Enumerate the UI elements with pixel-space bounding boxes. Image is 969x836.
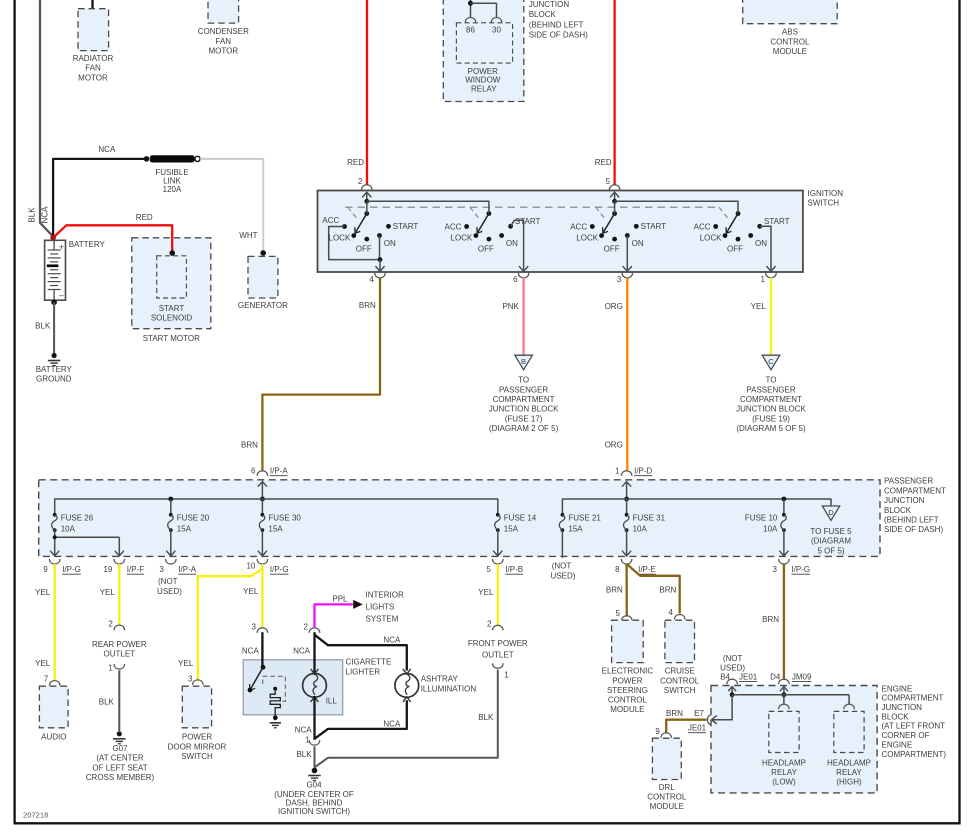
svg-text:NCA: NCA	[383, 720, 401, 729]
svg-text:MODULE: MODULE	[650, 802, 684, 811]
svg-text:NCA: NCA	[295, 726, 313, 735]
svg-text:COMPARTMENT: COMPARTMENT	[740, 395, 802, 404]
svg-text:1: 1	[761, 275, 766, 284]
svg-text:START: START	[764, 217, 790, 226]
svg-text:RED: RED	[347, 158, 364, 167]
svg-text:PPL: PPL	[332, 594, 348, 603]
svg-text:I/P-F: I/P-F	[127, 565, 144, 574]
svg-text:BRN: BRN	[666, 709, 683, 718]
svg-text:RELAY: RELAY	[771, 768, 797, 777]
svg-text:207218: 207218	[23, 811, 48, 820]
svg-text:B: B	[521, 357, 526, 366]
svg-text:CORNER OF: CORNER OF	[882, 731, 930, 740]
svg-text:FUSE 21: FUSE 21	[568, 513, 601, 522]
svg-text:ABS: ABS	[782, 28, 798, 37]
svg-text:CROSS MEMBER): CROSS MEMBER)	[86, 773, 155, 782]
svg-text:YEL: YEL	[100, 588, 116, 597]
svg-text:ENGINE: ENGINE	[882, 740, 913, 749]
svg-text:SWITCH: SWITCH	[808, 198, 840, 207]
svg-text:10: 10	[246, 561, 255, 570]
svg-text:I/P-A: I/P-A	[270, 467, 288, 476]
svg-text:GENERATOR: GENERATOR	[238, 301, 288, 310]
svg-text:HEADLAMP: HEADLAMP	[827, 759, 871, 768]
svg-text:ACC: ACC	[322, 216, 339, 225]
svg-text:JM09: JM09	[792, 672, 812, 681]
svg-text:STEERING: STEERING	[607, 686, 648, 695]
svg-text:CONTROL: CONTROL	[660, 676, 700, 685]
svg-text:ILLUMINATION: ILLUMINATION	[421, 685, 477, 694]
svg-text:–: –	[59, 290, 64, 300]
svg-text:BLOCK: BLOCK	[529, 10, 557, 19]
svg-text:5: 5	[606, 177, 611, 186]
svg-text:19: 19	[103, 565, 112, 574]
svg-text:FUSE 14: FUSE 14	[504, 513, 537, 522]
svg-text:COMPARTMENT: COMPARTMENT	[884, 486, 946, 495]
svg-text:2: 2	[108, 620, 113, 629]
svg-text:BLOCK: BLOCK	[882, 712, 910, 721]
svg-text:I/P-A: I/P-A	[178, 565, 196, 574]
svg-text:BATTERY: BATTERY	[69, 240, 106, 249]
svg-text:ACC: ACC	[445, 223, 462, 232]
svg-text:BLK: BLK	[296, 750, 312, 759]
svg-text:D: D	[828, 508, 834, 517]
svg-text:JUNCTION BLOCK: JUNCTION BLOCK	[489, 405, 559, 414]
svg-text:OFF: OFF	[727, 244, 743, 253]
svg-text:OF LEFT SEAT: OF LEFT SEAT	[92, 763, 147, 772]
svg-text:BRN: BRN	[606, 586, 623, 595]
svg-text:JE01: JE01	[739, 672, 758, 681]
svg-text:RED: RED	[136, 213, 153, 222]
svg-text:7: 7	[44, 675, 49, 684]
svg-text:LIGHTER: LIGHTER	[346, 668, 381, 677]
svg-text:SWITCH: SWITCH	[664, 686, 696, 695]
svg-text:G04: G04	[306, 781, 322, 790]
svg-text:E7: E7	[694, 709, 704, 718]
svg-text:PASSENGER: PASSENGER	[746, 385, 795, 394]
svg-text:(DIAGRAM 5 OF 5): (DIAGRAM 5 OF 5)	[736, 424, 806, 433]
svg-text:JUNCTION: JUNCTION	[884, 496, 925, 505]
svg-text:IGNITION SWITCH): IGNITION SWITCH)	[278, 807, 350, 816]
svg-text:NCA: NCA	[98, 145, 116, 154]
svg-text:INTERIOR: INTERIOR	[366, 591, 404, 600]
svg-text:9: 9	[655, 727, 660, 736]
svg-text:ON: ON	[632, 239, 644, 248]
svg-text:POWER: POWER	[612, 676, 642, 685]
svg-text:BATTERY: BATTERY	[36, 365, 73, 374]
svg-text:SIDE OF DASH): SIDE OF DASH)	[884, 525, 943, 534]
svg-text:4: 4	[370, 275, 375, 284]
svg-text:LOCK: LOCK	[700, 234, 722, 243]
svg-text:YEL: YEL	[478, 588, 494, 597]
svg-text:(HIGH): (HIGH)	[836, 778, 862, 787]
svg-text:OUTLET: OUTLET	[104, 650, 136, 659]
svg-text:9: 9	[43, 565, 48, 574]
svg-text:(FUSE 19): (FUSE 19)	[752, 414, 790, 423]
svg-text:COMPARTMENT: COMPARTMENT	[882, 694, 944, 703]
svg-text:YEL: YEL	[243, 587, 259, 596]
svg-text:HEADLAMP: HEADLAMP	[762, 759, 806, 768]
svg-text:(NOT: (NOT	[723, 654, 743, 663]
svg-text:RADIATOR: RADIATOR	[73, 54, 114, 63]
svg-text:6: 6	[251, 467, 256, 476]
svg-text:3: 3	[617, 275, 622, 284]
svg-text:NCA: NCA	[293, 647, 311, 656]
svg-text:MOTOR: MOTOR	[208, 47, 238, 56]
svg-text:START: START	[515, 217, 541, 226]
svg-text:DOOR MIRROR: DOOR MIRROR	[168, 742, 227, 751]
svg-text:ASHTRAY: ASHTRAY	[421, 674, 459, 683]
svg-text:LOCK: LOCK	[451, 234, 473, 243]
svg-text:OUTLET: OUTLET	[482, 651, 514, 660]
svg-text:FRONT POWER: FRONT POWER	[468, 639, 528, 648]
svg-text:1: 1	[615, 467, 620, 476]
svg-text:RELAY: RELAY	[836, 768, 862, 777]
svg-text:RED: RED	[595, 158, 612, 167]
svg-text:JUNCTION BLOCK: JUNCTION BLOCK	[736, 405, 806, 414]
svg-text:BLK: BLK	[478, 713, 494, 722]
svg-text:START MOTOR: START MOTOR	[143, 334, 200, 343]
svg-text:I/P-D: I/P-D	[634, 467, 652, 476]
svg-text:120A: 120A	[163, 185, 182, 194]
svg-text:(DIAGRAM: (DIAGRAM	[811, 537, 851, 546]
svg-text:BRN: BRN	[762, 615, 779, 624]
svg-text:I/P-G: I/P-G	[62, 565, 81, 574]
svg-text:ELECTRONIC: ELECTRONIC	[602, 667, 654, 676]
svg-text:(AT CENTER: (AT CENTER	[96, 754, 143, 763]
svg-text:ON: ON	[506, 239, 518, 248]
svg-text:ON: ON	[755, 239, 767, 248]
svg-text:ACC: ACC	[570, 223, 587, 232]
svg-text:NCA: NCA	[383, 635, 401, 644]
svg-text:3: 3	[772, 565, 777, 574]
svg-text:ORG: ORG	[605, 440, 623, 449]
svg-text:OFF: OFF	[478, 244, 494, 253]
svg-text:YEL: YEL	[35, 659, 51, 668]
svg-text:1: 1	[108, 663, 113, 672]
svg-text:BLOCK: BLOCK	[884, 506, 912, 515]
svg-text:(NOT: (NOT	[552, 562, 572, 571]
svg-text:FUSE 30: FUSE 30	[268, 513, 301, 522]
svg-text:BLK: BLK	[99, 698, 115, 707]
svg-text:(BEHIND LEFT: (BEHIND LEFT	[529, 20, 584, 29]
svg-text:POWER: POWER	[468, 67, 498, 76]
svg-text:BRN: BRN	[659, 586, 676, 595]
svg-text:WINDOW: WINDOW	[465, 76, 501, 85]
svg-text:MODULE: MODULE	[610, 705, 644, 714]
svg-text:OFF: OFF	[356, 244, 372, 253]
svg-text:USED): USED)	[551, 571, 576, 580]
svg-text:CONTROL: CONTROL	[608, 696, 648, 705]
svg-text:1: 1	[305, 735, 310, 744]
svg-text:3: 3	[251, 622, 256, 631]
svg-text:15A: 15A	[268, 524, 283, 533]
svg-text:SOLENOID: SOLENOID	[151, 314, 193, 323]
svg-text:SWITCH: SWITCH	[181, 752, 213, 761]
svg-text:CONDENSER: CONDENSER	[198, 27, 249, 36]
svg-text:LOCK: LOCK	[576, 234, 598, 243]
svg-text:2: 2	[304, 622, 309, 631]
svg-text:JUNCTION: JUNCTION	[882, 703, 923, 712]
svg-text:FUSE 10: FUSE 10	[745, 513, 778, 522]
svg-text:LOCK: LOCK	[329, 234, 351, 243]
svg-text:POWER: POWER	[182, 733, 212, 742]
svg-text:CRUISE: CRUISE	[665, 667, 695, 676]
svg-text:2: 2	[487, 620, 492, 629]
svg-text:YEL: YEL	[35, 588, 51, 597]
svg-text:C: C	[768, 357, 774, 366]
svg-text:2: 2	[358, 177, 363, 186]
svg-text:30: 30	[492, 25, 501, 34]
svg-text:PASSENGER: PASSENGER	[884, 477, 933, 486]
svg-text:BLK: BLK	[35, 321, 51, 330]
svg-text:(BEHIND LEFT: (BEHIND LEFT	[884, 516, 939, 525]
svg-text:5: 5	[615, 609, 620, 618]
svg-text:ILL: ILL	[326, 697, 338, 706]
svg-text:TO: TO	[518, 376, 529, 385]
svg-text:TO: TO	[766, 376, 777, 385]
svg-text:USED): USED)	[720, 664, 745, 673]
svg-text:JUNCTION: JUNCTION	[529, 0, 570, 9]
svg-text:FAN: FAN	[85, 64, 101, 73]
svg-text:10A: 10A	[763, 524, 778, 533]
svg-text:(DIAGRAM 2 OF 5): (DIAGRAM 2 OF 5)	[489, 424, 559, 433]
svg-text:15A: 15A	[504, 524, 519, 533]
svg-text:15A: 15A	[177, 524, 192, 533]
svg-text:COMPARTMENT: COMPARTMENT	[493, 395, 555, 404]
svg-text:(LOW): (LOW)	[772, 778, 796, 787]
svg-text:D4: D4	[770, 672, 781, 681]
svg-text:START: START	[159, 304, 185, 313]
svg-text:DRL: DRL	[659, 783, 676, 792]
svg-text:1: 1	[504, 670, 509, 679]
svg-text:ORG: ORG	[605, 302, 623, 311]
svg-text:BLK: BLK	[28, 207, 37, 223]
svg-text:I/P-G: I/P-G	[270, 565, 289, 574]
svg-text:6: 6	[513, 275, 518, 284]
svg-text:86: 86	[466, 25, 475, 34]
svg-text:RELAY: RELAY	[471, 85, 497, 94]
svg-text:JE01: JE01	[688, 724, 707, 733]
svg-text:START: START	[393, 222, 419, 231]
svg-text:BRN: BRN	[359, 301, 376, 310]
svg-text:LIGHTS: LIGHTS	[366, 603, 395, 612]
svg-text:I/P-B: I/P-B	[505, 565, 523, 574]
svg-text:ENGINE: ENGINE	[882, 684, 913, 693]
svg-text:YEL: YEL	[751, 302, 767, 311]
svg-text:REAR POWER: REAR POWER	[92, 640, 147, 649]
svg-text:FUSE 31: FUSE 31	[633, 513, 666, 522]
svg-text:B4: B4	[720, 672, 730, 681]
svg-text:USED): USED)	[157, 587, 182, 596]
svg-text:SYSTEM: SYSTEM	[366, 614, 399, 623]
svg-text:AUDIO: AUDIO	[41, 733, 66, 742]
svg-text:8: 8	[615, 565, 620, 574]
svg-text:YEL: YEL	[178, 659, 194, 668]
svg-text:5: 5	[486, 565, 491, 574]
svg-text:COMPARTMENT): COMPARTMENT)	[882, 750, 947, 759]
svg-text:MOTOR: MOTOR	[78, 73, 108, 82]
svg-text:MODULE: MODULE	[773, 47, 807, 56]
svg-text:(NOT: (NOT	[158, 577, 178, 586]
svg-text:FUSE 20: FUSE 20	[177, 513, 210, 522]
svg-text:(AT LEFT FRONT: (AT LEFT FRONT	[882, 722, 946, 731]
svg-text:START: START	[641, 222, 667, 231]
svg-text:(FUSE 17): (FUSE 17)	[505, 414, 543, 423]
svg-text:CONTROL: CONTROL	[770, 37, 810, 46]
svg-text:FAN: FAN	[216, 37, 232, 46]
svg-text:PASSENGER: PASSENGER	[499, 385, 548, 394]
svg-text:NCA: NCA	[242, 647, 260, 656]
svg-text:CIGARETTE: CIGARETTE	[346, 658, 392, 667]
svg-text:ON: ON	[384, 239, 396, 248]
svg-text:10A: 10A	[61, 524, 76, 533]
svg-text:PNK: PNK	[502, 302, 519, 311]
svg-text:GROUND: GROUND	[36, 375, 72, 384]
svg-text:3: 3	[188, 674, 193, 683]
svg-text:4: 4	[668, 608, 673, 617]
svg-text:OFF: OFF	[604, 244, 620, 253]
svg-text:IGNITION: IGNITION	[808, 189, 844, 198]
svg-text:WHT: WHT	[239, 231, 257, 240]
svg-text:I/P-G: I/P-G	[791, 565, 810, 574]
svg-text:SIDE OF DASH): SIDE OF DASH)	[529, 31, 588, 40]
svg-text:BRN: BRN	[241, 441, 258, 450]
svg-text:TO FUSE 5: TO FUSE 5	[810, 527, 852, 536]
svg-text:15A: 15A	[568, 524, 583, 533]
svg-text:FUSE 26: FUSE 26	[61, 513, 94, 522]
svg-text:5 OF 5): 5 OF 5)	[817, 546, 844, 555]
svg-text:CONTROL: CONTROL	[647, 792, 687, 801]
svg-text:ACC: ACC	[694, 223, 711, 232]
svg-text:NCA: NCA	[41, 206, 50, 224]
svg-text:3: 3	[159, 565, 164, 574]
svg-text:10A: 10A	[633, 524, 648, 533]
svg-text:G07: G07	[112, 744, 128, 753]
svg-text:I/P-E: I/P-E	[638, 565, 656, 574]
